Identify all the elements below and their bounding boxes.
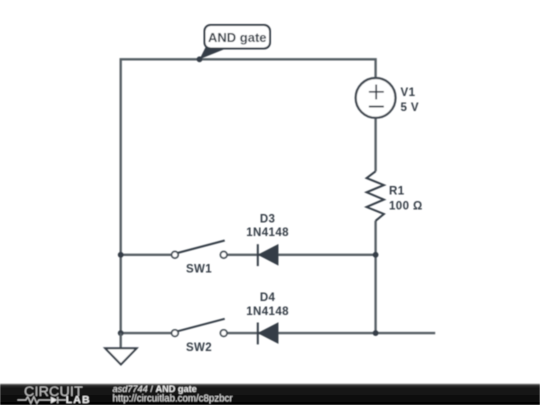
wire: row2 left segment: [121, 332, 172, 334]
CircuitLab logo resistor-diode glyph: [18, 397, 51, 403]
svg-text:SW2: SW2: [186, 342, 212, 354]
resistor R1: [367, 171, 423, 221]
svg-text:V1: V1: [401, 87, 416, 99]
svg-text:R1: R1: [389, 186, 405, 198]
diode D4: [246, 292, 289, 344]
node: row1 right junction: [373, 252, 379, 258]
wire: V1 bottom to resistor top: [374, 118, 376, 171]
svg-text:asd7744 / AND gate: asd7744 / AND gate: [113, 384, 197, 394]
node: row2 left junction (ground): [118, 330, 124, 336]
svg-text:D4: D4: [260, 292, 276, 304]
svg-text:D3: D3: [260, 213, 276, 225]
svg-text:100 Ω: 100 Ω: [389, 201, 423, 213]
voltage source V1: [356, 78, 419, 118]
diode D3: [246, 213, 289, 266]
wire: row1 switch to junction via diode D3: [227, 254, 376, 256]
wire: row1 left segment: [121, 254, 172, 256]
AND gate callout: [200, 25, 271, 59]
switch SW1: [172, 241, 227, 276]
svg-text:AND gate: AND gate: [208, 30, 267, 45]
wire: resistor bottom to row2 junction: [374, 221, 376, 333]
svg-text:1N4148: 1N4148: [246, 306, 289, 318]
CircuitLab footer bar: [0, 384, 540, 405]
ground: [105, 333, 136, 364]
node: row2 right junction: [373, 330, 379, 336]
svg-text:http://circuitlab.com/c8pzbcr: http://circuitlab.com/c8pzbcr: [113, 394, 234, 405]
svg-text:5 V: 5 V: [401, 102, 419, 114]
wire: left vertical + top horizontal + drop to V1: [121, 59, 376, 333]
wire: row2 switch through junction to right stub: [227, 332, 435, 334]
svg-text:1N4148: 1N4148: [246, 227, 289, 239]
svg-text:LAB: LAB: [66, 394, 91, 405]
node: top wire node under callout: [197, 56, 203, 62]
node: row1 left junction: [118, 252, 124, 258]
switch SW2: [172, 319, 227, 354]
svg-text:SW1: SW1: [186, 263, 212, 275]
